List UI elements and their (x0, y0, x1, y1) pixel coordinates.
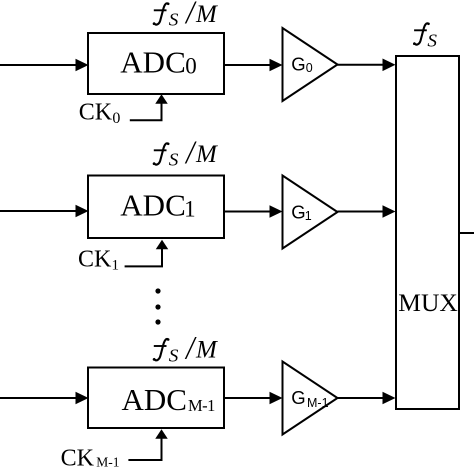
svg-text:M: M (195, 1, 218, 28)
wire input row 3 (0, 392, 89, 405)
wire clock CK0 to ADC0 (130, 94, 168, 120)
wire G0 to MUX (338, 59, 396, 72)
svg-text:ADC: ADC (120, 44, 185, 79)
svg-text:1: 1 (305, 209, 312, 223)
svg-text:ADC: ADC (122, 382, 187, 417)
wire ADC1 to G1 (224, 205, 283, 218)
svg-text:1: 1 (184, 197, 196, 222)
svg-text:MUX: MUX (398, 288, 458, 317)
svg-text:S: S (169, 150, 179, 170)
amplifier G0 (283, 28, 338, 101)
ADC block U2 ADC1 (88, 176, 224, 239)
wire ADC0 to G0 (224, 59, 283, 72)
svg-text:CK: CK (61, 446, 95, 472)
wire ADCM-1 to GM-1 (224, 392, 283, 405)
wire clock CKM-1 to ADCM-1 (128, 429, 167, 460)
ADC block U1 ADC0 (88, 33, 224, 94)
svg-text:G: G (291, 202, 305, 223)
label fs/M row 2 (153, 134, 218, 171)
clock input CK0 (79, 100, 121, 127)
label fs above MUX (413, 23, 437, 52)
ADC block U3 ADCM-1 (88, 368, 224, 429)
svg-text:0: 0 (112, 110, 120, 127)
wire clock CK1 to ADC1 (125, 240, 169, 267)
svg-text:0: 0 (185, 54, 197, 79)
svg-text:CK: CK (78, 246, 112, 272)
svg-text:S: S (169, 10, 179, 30)
svg-text:S: S (169, 346, 179, 366)
wire G1 to MUX (338, 205, 396, 218)
clock input CK1 (78, 246, 119, 273)
svg-text:M: M (195, 141, 218, 168)
svg-text:ADC: ADC (120, 188, 185, 223)
amplifier G1 (283, 176, 338, 249)
svg-text:CK: CK (79, 100, 113, 126)
clock input CKM-1 (61, 446, 120, 472)
svg-text:0: 0 (306, 61, 313, 75)
svg-text:M: M (195, 337, 218, 364)
svg-text:S: S (427, 31, 437, 51)
wire GM-1 to MUX (338, 392, 396, 405)
svg-text:1: 1 (112, 258, 120, 274)
label fs/M row 3 (153, 330, 218, 367)
label fs/M row 1 (153, 0, 218, 30)
svg-text:G: G (291, 387, 305, 408)
wire input row 2 (0, 205, 89, 218)
svg-text:G: G (291, 53, 305, 74)
svg-text:M-1: M-1 (307, 396, 329, 410)
svg-text:M-1: M-1 (188, 396, 215, 415)
svg-text:M-1: M-1 (96, 455, 119, 470)
amplifier GM-1 (283, 362, 338, 435)
wire MUX output (459, 232, 474, 234)
MUX block (396, 56, 459, 409)
wire input row 1 (0, 59, 89, 72)
ellipsis dots (155, 288, 160, 324)
